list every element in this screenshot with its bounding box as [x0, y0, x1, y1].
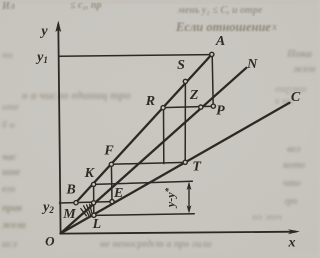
- svg-text:F: F: [103, 144, 114, 159]
- svg-text:х: х: [271, 22, 277, 33]
- node R: [161, 106, 165, 110]
- svg-text:гро: гро: [284, 196, 298, 207]
- wire y2 level B to E: [59, 202, 115, 204]
- node on N below K: [92, 201, 96, 205]
- wire horizontal L level: [94, 214, 194, 216]
- svg-text:жела: жела: [2, 220, 26, 231]
- svg-text:T: T: [192, 160, 202, 175]
- svg-text:R: R: [145, 94, 155, 109]
- node E: [110, 200, 114, 204]
- svg-text:исл: исл: [2, 239, 17, 250]
- svg-text:Если отношение: Если отношение: [175, 20, 271, 34]
- svg-text:мень у₂ ≤ С, и отре: мень у₂ ≤ С, и отре: [177, 5, 263, 16]
- node Z: [199, 105, 203, 109]
- svg-text:вел: вел: [287, 144, 301, 155]
- svg-text:оте: оте: [2, 102, 20, 113]
- wire vertical S to T: [184, 82, 186, 163]
- svg-text:час: час: [2, 152, 17, 163]
- node B: [74, 201, 78, 205]
- node S: [183, 79, 187, 83]
- node A: [210, 52, 214, 56]
- svg-text:x: x: [288, 236, 296, 251]
- wire horizontal K level: [94, 181, 193, 184]
- svg-text:не непосредст а про гили: не непосредст а про гили: [100, 239, 212, 250]
- svg-text:Z: Z: [189, 88, 199, 103]
- svg-text:P: P: [216, 104, 225, 119]
- wire vertical F to E: [110, 164, 113, 201]
- node P: [211, 104, 215, 108]
- line N from origin O: [61, 68, 247, 234]
- node L: [92, 213, 96, 217]
- svg-text:что: что: [283, 178, 301, 189]
- svg-text:N: N: [246, 57, 258, 72]
- node F: [109, 162, 113, 166]
- wire vertical A to P: [212, 55, 213, 106]
- svg-text:прав: прав: [2, 203, 23, 214]
- svg-text:E: E: [113, 186, 123, 201]
- svg-text:L: L: [92, 217, 102, 232]
- svg-text:K: K: [84, 166, 96, 181]
- svg-text:M: M: [62, 207, 76, 222]
- svg-text:шне: шне: [2, 167, 21, 178]
- svg-text:жем: жем: [293, 63, 316, 75]
- line C from origin O: [61, 103, 290, 234]
- x-axis: [61, 232, 296, 234]
- svg-text:C: C: [291, 90, 301, 105]
- svg-text:O: O: [45, 233, 55, 248]
- svg-text:о а число единиц тро: о а число единиц тро: [22, 90, 131, 102]
- wire vertical R down: [163, 108, 165, 164]
- node T: [183, 160, 187, 164]
- y-axis: [58, 24, 60, 234]
- svg-text:его: его: [2, 184, 15, 195]
- svg-text:≤ c₁, пр: ≤ c₁, пр: [70, 0, 101, 11]
- svg-text:S: S: [177, 58, 185, 73]
- svg-text:Ил: Ил: [1, 1, 15, 12]
- dimension arrowhead down: [187, 205, 192, 213]
- svg-text:б н: б н: [2, 120, 15, 131]
- wire vertical K to L: [93, 184, 95, 215]
- svg-text:Пока: Пока: [286, 48, 312, 60]
- svg-text:кото: кото: [283, 160, 305, 171]
- svg-text:ни: ни: [2, 50, 14, 61]
- svg-text:A: A: [215, 34, 225, 49]
- wire horizontal F T: [111, 162, 185, 164]
- wire horizontal R Z P: [163, 106, 213, 107]
- y-axis arrowhead: [55, 21, 61, 33]
- node K: [92, 182, 96, 186]
- dimension arrowhead up: [187, 182, 192, 190]
- x-axis arrowhead: [288, 229, 300, 234]
- line BA through points B K F R S A: [76, 54, 212, 202]
- dimension line y-y*: [188, 184, 190, 211]
- svg-text:B: B: [65, 183, 75, 198]
- svg-text:y: y: [39, 24, 48, 39]
- wire y1 level from y-axis to A: [59, 55, 211, 57]
- svg-text:по этч: по этч: [252, 212, 282, 223]
- hatching near M: [81, 209, 87, 216]
